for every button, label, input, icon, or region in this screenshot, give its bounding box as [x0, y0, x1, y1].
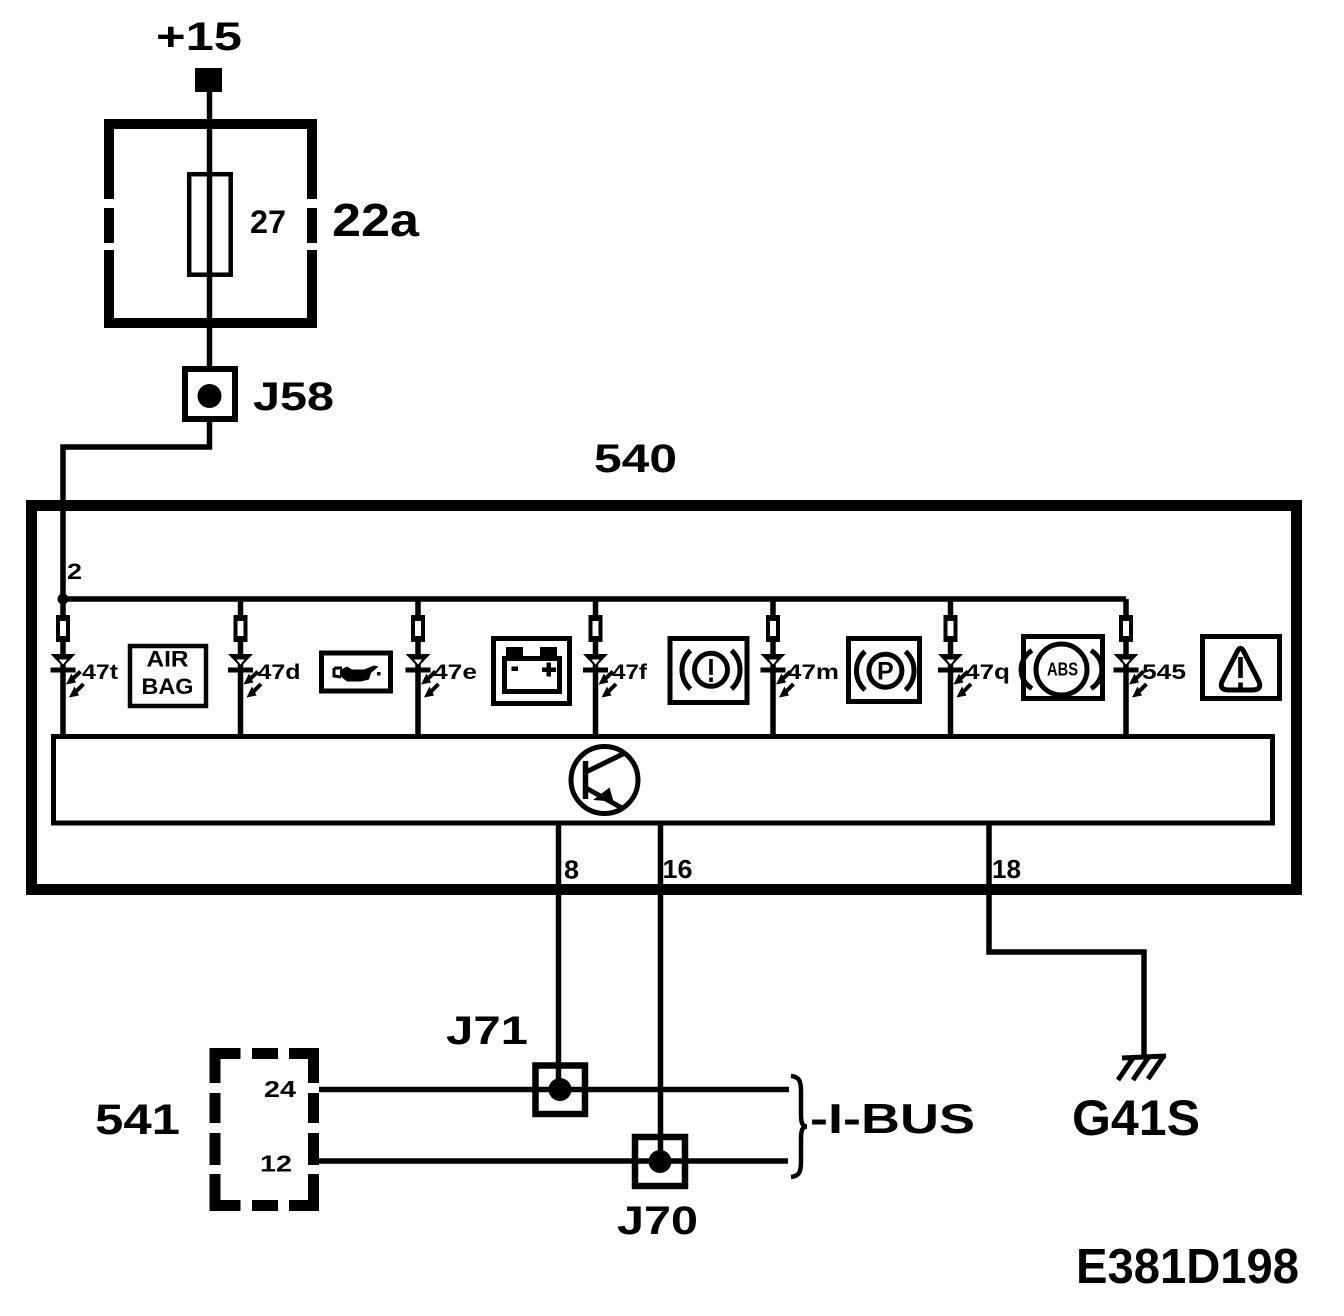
pin 16 wire	[658, 823, 664, 1162]
svg-text:27: 27	[250, 204, 286, 240]
svg-text:24: 24	[264, 1076, 296, 1102]
svg-text:J70: J70	[617, 1199, 698, 1243]
svg-text:8: 8	[564, 855, 579, 885]
fuse 27	[189, 174, 231, 275]
svg-text:J58: J58	[253, 375, 334, 419]
svg-text:E381D198: E381D198	[1076, 1240, 1299, 1294]
svg-text:545: 545	[1142, 661, 1186, 684]
svg-text:+15: +15	[156, 15, 242, 59]
svg-text:G41S: G41S	[1072, 1090, 1200, 1146]
wire branch 47d	[238, 599, 244, 737]
wire branch 47e	[415, 599, 421, 737]
wire J58 to pin 2 of unit 540	[63, 419, 210, 599]
connector J70	[635, 1137, 685, 1186]
wire branch 545	[1123, 599, 1129, 737]
LED 47q	[938, 654, 971, 698]
svg-text:-I-BUS: -I-BUS	[810, 1095, 975, 1142]
svg-text:AIR: AIR	[147, 647, 189, 672]
icon oil pressure lamp	[322, 653, 391, 691]
wire branch 47t	[60, 599, 66, 737]
LED 47e	[406, 654, 439, 698]
bus wire inside 540	[63, 596, 1126, 602]
svg-text:541: 541	[95, 1096, 180, 1144]
wire branch 47m	[770, 599, 776, 737]
svg-text:18: 18	[992, 854, 1021, 884]
ground G41S symbol	[1118, 1056, 1166, 1080]
LED 47t	[51, 654, 84, 698]
wire branch 47f	[593, 599, 599, 737]
svg-text:22a: 22a	[332, 194, 419, 246]
wire branch 47q	[948, 599, 954, 737]
resistor element 47t branch	[56, 615, 70, 642]
svg-text:47d: 47d	[258, 661, 301, 684]
wire through fusebox	[207, 125, 213, 369]
pin 8 wire	[556, 823, 562, 1089]
svg-text:12: 12	[260, 1151, 292, 1177]
resistor element 545 branch	[1119, 615, 1133, 642]
svg-text:47t: 47t	[82, 661, 118, 684]
wire pin 24 to I-BUS	[319, 1087, 789, 1093]
svg-text:2: 2	[67, 559, 82, 584]
icon AIR BAG lamp	[130, 646, 206, 706]
connector J71	[536, 1066, 586, 1115]
svg-text:16: 16	[663, 854, 693, 884]
resistor element 47f branch	[589, 615, 603, 642]
icon battery charge lamp	[494, 639, 570, 704]
svg-text:47m: 47m	[787, 661, 839, 684]
svg-text:47f: 47f	[612, 661, 648, 684]
wire from +15 terminal to fusebox	[207, 90, 213, 125]
LED 47f	[583, 654, 616, 698]
icon ABS lamp	[1021, 637, 1102, 699]
svg-text:47q: 47q	[965, 661, 1010, 684]
connector 541 (dashed box)	[210, 1048, 320, 1211]
svg-text:47e: 47e	[433, 661, 477, 684]
wire pin 12 to I-BUS	[319, 1158, 788, 1164]
resistor element 47q branch	[944, 615, 958, 642]
connector J58	[185, 369, 235, 419]
LED 47d	[228, 654, 261, 698]
resistor element 47m branch	[766, 615, 780, 642]
junction node pin 2	[58, 594, 69, 605]
transistor symbol	[571, 747, 638, 814]
icon parking brake lamp (P)	[849, 639, 920, 702]
LED 47m	[761, 654, 794, 698]
resistor element 47d branch	[234, 615, 248, 642]
pin 18 wire to ground	[989, 823, 1144, 1058]
icon general warning triangle lamp	[1203, 637, 1280, 699]
fusebox 22a (dashed border box)	[104, 119, 317, 328]
svg-text:ABS: ABS	[1047, 660, 1078, 680]
svg-text:P: P	[877, 658, 894, 686]
svg-text:540: 540	[594, 437, 677, 481]
resistor element 47e branch	[411, 615, 425, 642]
brace I-BUS	[791, 1076, 807, 1177]
svg-text:J71: J71	[446, 1009, 528, 1053]
terminal square +15	[195, 68, 222, 92]
display driver inner box	[54, 737, 1273, 824]
ECU 540 combined instrument box	[32, 506, 1297, 890]
svg-text:BAG: BAG	[142, 674, 194, 699]
icon brake warning lamp (!)	[670, 639, 747, 703]
LED 545	[1114, 654, 1147, 698]
